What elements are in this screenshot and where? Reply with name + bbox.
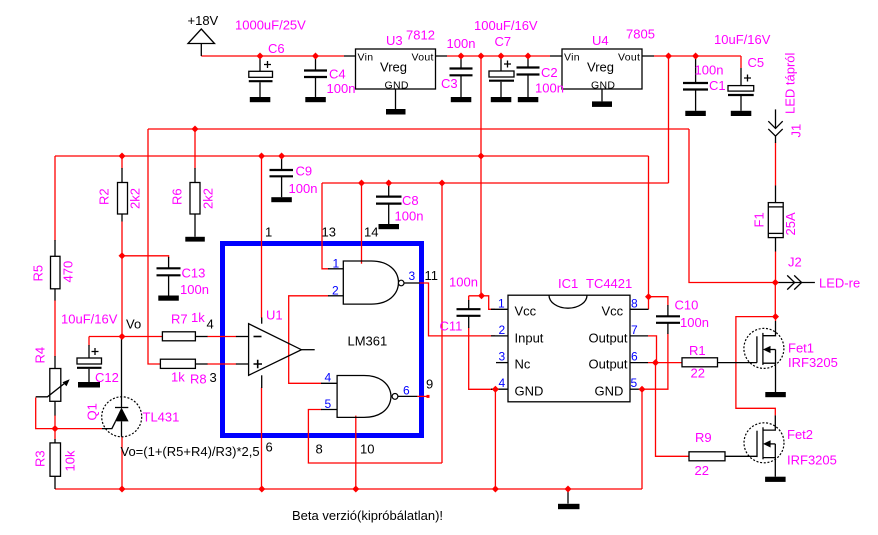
svg-text:Output: Output — [589, 357, 628, 372]
svg-text:GND: GND — [515, 384, 544, 399]
resistor R5 470 — [51, 240, 61, 301]
svg-text:100n: 100n — [695, 63, 724, 78]
wire R5 top drop — [54, 156, 56, 241]
svg-text:C10: C10 — [675, 298, 699, 313]
svg-text:TC4421: TC4421 — [586, 276, 632, 291]
svg-text:1000uF/25V: 1000uF/25V — [235, 18, 306, 33]
wire net8 vertical x442 — [441, 183, 443, 463]
capacitor C4 100n — [304, 56, 327, 102]
wire gate2 output stub net9 — [417, 395, 428, 397]
svg-text:100n: 100n — [180, 282, 209, 297]
svg-text:25A: 25A — [783, 212, 798, 235]
wire IC1 pin7 to pin6 tie — [648, 336, 657, 363]
wire U4 Vout +5V rail — [654, 55, 741, 57]
svg-text:6: 6 — [631, 350, 638, 364]
svg-text:U3: U3 — [386, 33, 403, 48]
svg-text:R6: R6 — [170, 188, 185, 205]
svg-text:6: 6 — [403, 384, 410, 398]
wire gate drive down to R9 — [656, 363, 690, 457]
svg-text:Fet2: Fet2 — [787, 427, 813, 442]
ground symbol at rail — [558, 489, 580, 509]
svg-text:1k: 1k — [171, 370, 185, 385]
svg-text:C7: C7 — [495, 34, 512, 49]
gate pin numbers blue — [325, 257, 416, 412]
wire U1 supply vertical top — [261, 156, 263, 318]
svg-text:Vcc: Vcc — [515, 304, 537, 319]
capacitor C8 100n — [376, 186, 402, 229]
svg-text:Q1: Q1 — [85, 403, 100, 420]
svg-text:7812: 7812 — [406, 28, 435, 43]
wire C8 stub red — [388, 183, 390, 187]
wire pin6 to R1 — [648, 362, 682, 364]
capacitor C5 10uF/16V — [728, 68, 754, 116]
svg-text:F1: F1 — [752, 212, 767, 227]
wire node Vo row — [89, 336, 162, 338]
svg-text:C9: C9 — [296, 164, 313, 179]
wire J1 to F1 — [775, 143, 777, 186]
svg-text:5: 5 — [325, 397, 332, 411]
svg-text:C2: C2 — [541, 65, 558, 80]
wire net8 bottom run — [308, 410, 442, 464]
svg-text:LM361: LM361 — [348, 334, 388, 349]
resistor R6 2k2 — [185, 168, 205, 242]
svg-text:Nc: Nc — [515, 357, 531, 372]
svg-text:LED tápról: LED tápról — [783, 52, 798, 114]
svg-text:GND: GND — [591, 80, 615, 92]
wire R6 top — [194, 129, 196, 169]
svg-text:7: 7 — [631, 323, 638, 337]
svg-text:100uF/16V: 100uF/16V — [474, 18, 538, 33]
svg-text:IRF3205: IRF3205 — [787, 453, 837, 468]
svg-text:J1: J1 — [789, 124, 804, 138]
wire R7 to U1 minus — [207, 336, 236, 338]
svg-text:2k2: 2k2 — [201, 188, 216, 209]
wire gate2 gnd pin10 drop — [355, 416, 357, 489]
wire C11 top to +12V node — [469, 296, 495, 310]
svg-text:9: 9 — [426, 377, 433, 392]
svg-text:10uF/16V: 10uF/16V — [61, 312, 118, 327]
wire net A horizontal y129 — [148, 128, 689, 130]
transistor Fet2 IRF3205 — [744, 415, 786, 482]
svg-text:11: 11 — [425, 268, 439, 283]
wire +18V rail to U3 Vin — [201, 55, 344, 57]
svg-text:1k: 1k — [191, 310, 205, 325]
wire IC1 pin4 down to gnd rail — [494, 389, 496, 489]
wire pin13 drop to gate1 input1 — [322, 183, 329, 269]
svg-text:6: 6 — [266, 440, 273, 455]
resistor R2 2k2 — [118, 168, 128, 222]
op-amp U1 LM361 comparator — [236, 318, 315, 389]
wire F1 to J2 node — [775, 252, 777, 283]
capacitor C6 1000uF/25V — [249, 56, 273, 102]
svg-text:1: 1 — [265, 225, 272, 240]
svg-text:100n: 100n — [680, 315, 709, 330]
svg-text:C1: C1 — [709, 78, 726, 93]
wire C10 top link — [649, 297, 668, 306]
capacitor C1 100n — [683, 58, 708, 116]
node net9 open end — [427, 395, 430, 398]
svg-text:Vreg: Vreg — [380, 60, 407, 75]
wire net A down to J2 node — [689, 129, 775, 283]
svg-text:IRF3205: IRF3205 — [788, 355, 838, 370]
wire C5 drop — [740, 56, 742, 68]
capacitor C9 100n — [270, 157, 294, 202]
capacitor C12 10uF/16V — [77, 345, 102, 388]
svg-text:4: 4 — [325, 371, 332, 385]
svg-text:8: 8 — [316, 442, 323, 457]
svg-text:14: 14 — [364, 225, 378, 240]
svg-text:100n: 100n — [535, 81, 564, 96]
svg-text:U4: U4 — [592, 33, 609, 48]
svg-text:470: 470 — [61, 261, 76, 283]
svg-text:U1: U1 — [266, 308, 283, 323]
svg-text:Vreg: Vreg — [587, 60, 614, 75]
wire U3 Vout +12V rail — [447, 55, 550, 57]
wire Fet1 drain stub — [775, 317, 777, 321]
resistor R8 1k — [160, 359, 207, 368]
svg-text:IC1: IC1 — [558, 276, 578, 291]
capacitor C13 100n — [157, 257, 181, 301]
wire pin14 drop to gate1 top — [361, 183, 363, 264]
svg-text:Vo=(1+(R5+R4)/R3)*2,5: Vo=(1+(R5+R4)/R3)*2,5 — [121, 444, 260, 459]
svg-text:C5: C5 — [748, 55, 765, 70]
wire C10 bottom to pin5 — [642, 334, 668, 390]
svg-text:100n: 100n — [447, 36, 476, 51]
wire ground rail y489 — [55, 488, 642, 490]
capacitor C2 100n — [517, 56, 540, 102]
resistor R3 10k — [50, 439, 61, 489]
wire Fet1 bypass to Fet2 drain — [736, 317, 775, 416]
svg-text:100n: 100n — [395, 209, 424, 224]
wire +12V vertical x481 — [480, 56, 482, 296]
wire R8 to U1 plus — [207, 363, 236, 365]
svg-text:TL431: TL431 — [143, 410, 180, 425]
svg-text:GND: GND — [595, 384, 624, 399]
svg-text:13: 13 — [322, 225, 336, 240]
svg-text:Fet1: Fet1 — [788, 341, 814, 356]
svg-text:R1: R1 — [689, 343, 706, 358]
driver IC1 TC4421 — [491, 295, 649, 402]
wire J2 node to Fet1 drain node — [774, 283, 776, 317]
svg-text:GND: GND — [385, 80, 409, 92]
svg-text:100n: 100n — [289, 181, 318, 196]
svg-text:4: 4 — [207, 317, 214, 332]
svg-text:Vin: Vin — [358, 52, 374, 64]
svg-text:1: 1 — [498, 297, 505, 311]
fuse F1 25A — [768, 186, 783, 252]
svg-text:3: 3 — [409, 269, 416, 283]
wire y156 corner down to IC1 pin8 — [648, 156, 650, 297]
capacitor C3 100n — [450, 56, 473, 102]
svg-text:3: 3 — [499, 350, 506, 364]
wire R2 bottom column x122 — [121, 222, 123, 337]
resistor R9 22 — [689, 452, 757, 461]
connector J2 — [775, 275, 815, 289]
svg-text:22: 22 — [691, 366, 705, 381]
svg-text:C6: C6 — [268, 41, 285, 56]
svg-text:100n: 100n — [449, 275, 478, 290]
svg-text:8: 8 — [631, 297, 638, 311]
wire x668 up to U4 out — [668, 56, 670, 183]
IC1 pin numbers blue — [498, 297, 638, 391]
svg-text:100n: 100n — [327, 81, 356, 96]
capacitor C7 100uF/16V — [489, 56, 514, 102]
wire gate1 output to IC1 input — [419, 283, 495, 336]
svg-text:3: 3 — [210, 370, 217, 385]
wire R4 to R3 junction — [54, 415, 56, 440]
shunt regulator Q1 TL431 — [102, 338, 142, 437]
wire U1 pin6 drop to gnd rail — [261, 388, 263, 490]
svg-text:R2: R2 — [97, 188, 112, 205]
svg-text:R3: R3 — [33, 450, 48, 467]
U4 pin names — [564, 52, 640, 92]
svg-text:C13: C13 — [182, 266, 206, 281]
op-amp block outline U1 (blue box) — [223, 244, 422, 436]
svg-text:Vout: Vout — [412, 52, 434, 64]
svg-text:R9: R9 — [695, 430, 712, 445]
nand gate U1a (pins 1,2,3) — [328, 261, 420, 304]
svg-text:C11: C11 — [440, 319, 463, 334]
wire IC1 pin8 supply — [648, 297, 650, 310]
connector J1 — [768, 109, 782, 143]
svg-text:Vout: Vout — [618, 52, 640, 64]
resistor R1 22 — [682, 358, 757, 367]
svg-text:Vcc: Vcc — [602, 304, 624, 319]
wire R2 top stub — [121, 156, 123, 169]
capacitor C11 100n — [457, 300, 481, 328]
wire Q1 anode bottom drop — [121, 437, 123, 489]
svg-text:R7: R7 — [171, 312, 188, 327]
svg-text:1: 1 — [333, 257, 340, 271]
svg-text:Output: Output — [589, 331, 628, 346]
wire +12V horizontal y156 — [55, 155, 649, 157]
svg-text:Input: Input — [515, 331, 544, 346]
resistor R7 1k — [162, 332, 207, 341]
regulator U3 7812 — [344, 49, 447, 115]
svg-text:J2: J2 — [788, 255, 802, 270]
svg-text:2: 2 — [499, 323, 506, 337]
wire C12 drop — [88, 337, 90, 346]
wire C11 bottom to IC1 gnd pin4 — [469, 328, 496, 390]
svg-text:C12: C12 — [95, 370, 119, 385]
svg-text:10uF/16V: 10uF/16V — [714, 32, 771, 47]
svg-text:+18V: +18V — [188, 13, 219, 28]
power symbol +18V — [188, 29, 215, 56]
svg-text:7805: 7805 — [626, 27, 655, 42]
svg-text:22: 22 — [695, 463, 709, 478]
potentiometer R4 — [36, 356, 70, 416]
svg-text:R4: R4 — [33, 347, 48, 364]
svg-text:10k: 10k — [63, 450, 78, 471]
capacitor C10 100n — [656, 305, 680, 334]
svg-text:R5: R5 — [31, 265, 46, 282]
svg-text:C8: C8 — [402, 193, 419, 208]
wire x148 down to R8 — [148, 129, 161, 364]
svg-text:Beta verzió(kipróbálatlan)!: Beta verzió(kipróbálatlan)! — [292, 508, 443, 523]
svg-text:LED-re: LED-re — [819, 276, 860, 291]
transistor Fet1 IRF3205 — [744, 321, 786, 397]
wire gate1 input2 to gate2 input1 — [289, 296, 329, 384]
svg-text:C4: C4 — [329, 67, 346, 82]
U3 pin names — [358, 52, 434, 92]
nand gate U1b (pins 4,5,6) — [321, 376, 417, 418]
wire C11 top lead red — [468, 296, 470, 301]
svg-text:C3: C3 — [441, 76, 458, 91]
regulator U4 7805 — [550, 49, 654, 107]
svg-text:R8: R8 — [190, 372, 207, 387]
svg-text:Vin: Vin — [564, 52, 580, 64]
svg-text:Vo: Vo — [126, 317, 141, 332]
svg-text:10: 10 — [360, 442, 374, 457]
svg-text:2: 2 — [332, 284, 339, 298]
wire R4 wiper to anode node — [36, 398, 102, 429]
wire IC1 pin5 down to gnd rail — [641, 389, 643, 489]
IC1 pin names — [515, 304, 628, 399]
svg-text:2k2: 2k2 — [128, 188, 143, 209]
wire C13 link — [122, 256, 169, 258]
svg-text:4: 4 — [499, 376, 506, 390]
wire +5V y183 — [322, 182, 669, 184]
svg-text:5: 5 — [631, 376, 638, 390]
wire R5 to R4 — [54, 300, 56, 357]
